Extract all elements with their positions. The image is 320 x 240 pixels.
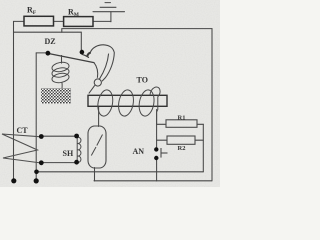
svg-text:TO: TO	[137, 76, 148, 85]
heater block (hatched)	[41, 88, 71, 104]
ground	[93, 3, 125, 12]
capsule diagonal	[91, 135, 102, 156]
node AN contact bottom	[154, 156, 158, 160]
node CT terminal top	[39, 134, 44, 139]
node SH terminal bottom	[74, 160, 79, 165]
wire second rail	[35, 53, 37, 181]
solenoid TO winding	[96, 87, 160, 124]
wire DZ left stub	[36, 52, 46, 54]
svg-text:R2: R2	[178, 145, 186, 152]
junction bottom bus	[34, 170, 39, 175]
node DZ contact right	[80, 50, 85, 55]
wire R1 leads	[157, 123, 204, 125]
wire CT to SH top	[41, 135, 76, 137]
node SH terminal top	[74, 134, 79, 139]
wire inner top bus	[62, 29, 212, 33]
SH winding	[77, 136, 81, 162]
DZ armature pennant	[87, 45, 114, 94]
wire coil stem	[61, 56, 63, 63]
svg-text:CT: CT	[17, 126, 29, 135]
wire left rail	[13, 21, 15, 180]
ground riser	[110, 12, 112, 22]
heater CT zigzag	[2, 134, 41, 163]
plug prong tip left	[11, 178, 16, 183]
wire inner right rail	[202, 124, 204, 172]
wire TO to capsule	[98, 106, 100, 126]
wire right rail	[211, 29, 213, 181]
svg-text:DZ: DZ	[45, 37, 56, 46]
fixed contact stub DZ	[82, 54, 89, 57]
push button AN	[161, 148, 168, 158]
wire CT to SH bottom	[41, 162, 76, 164]
solenoid TO core	[88, 95, 167, 106]
plug prong tip right	[34, 178, 39, 183]
node AN contact top	[154, 147, 158, 151]
resistor RF	[24, 16, 54, 26]
svg-text:SH: SH	[63, 149, 74, 158]
wire R2 leads	[157, 139, 204, 141]
svg-text:R1: R1	[178, 115, 186, 122]
wire DZ feeder	[14, 32, 82, 50]
node DZ contact left	[46, 51, 51, 56]
wire AN rail	[156, 110, 158, 182]
resistor R1	[166, 120, 197, 128]
svg-text:AN: AN	[133, 147, 145, 156]
PTC capsule	[88, 126, 106, 168]
wire inner bottom bus	[37, 171, 204, 173]
wire capsule bottom	[94, 168, 96, 182]
switch blade DZ	[48, 53, 94, 62]
node CT terminal bottom	[39, 160, 44, 165]
resistor RM	[64, 17, 93, 27]
wire top feeder	[14, 20, 111, 22]
wire bottom outer	[94, 180, 212, 182]
armature hook bold tip	[87, 53, 91, 57]
relay DZ spiral coil	[51, 55, 70, 88]
resistor R2	[167, 136, 195, 144]
